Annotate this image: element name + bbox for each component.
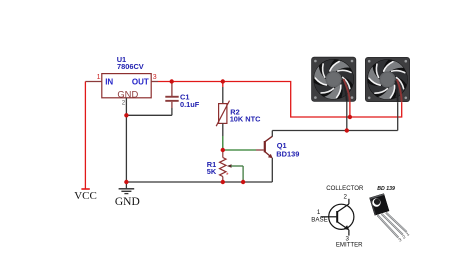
wire: green base wire — [223, 149, 256, 151]
svg-text:1: 1 — [317, 209, 321, 216]
svg-text:EMITTER: EMITTER — [336, 242, 363, 249]
wire: fan2 lead pair — [396, 81, 398, 103]
wire: emitter to ground rail — [271, 158, 273, 182]
svg-text:COLLECTOR: COLLECTOR — [326, 185, 364, 192]
wire: VCC pin stub from U1 pin1 — [85, 81, 101, 83]
wire: collector to fan negative rail — [271, 131, 273, 137]
svg-text:10K NTC: 10K NTC — [230, 115, 261, 124]
fan 1 — [311, 56, 358, 103]
svg-text:7806CV: 7806CV — [117, 62, 144, 71]
svg-text:5K: 5K — [207, 167, 217, 176]
svg-text:*: * — [226, 172, 229, 179]
wire: OUT pin stub — [151, 81, 158, 83]
package body with mounting hole — [370, 194, 389, 216]
emitter lead with arrow — [337, 222, 348, 229]
svg-text:GND: GND — [115, 196, 140, 208]
capacitor C1 — [171, 82, 173, 97]
wire: R1 wiper to bottom rail — [231, 165, 243, 167]
R1 wiper arrow — [227, 164, 232, 168]
svg-text:IN: IN — [105, 78, 113, 87]
wire: U1 GND vertical — [125, 98, 127, 182]
node: red fan junction — [348, 115, 352, 119]
wire: red top rail — [158, 82, 402, 118]
svg-text:GND: GND — [117, 89, 138, 100]
node: rail/R2 — [221, 79, 225, 83]
svg-text:0.1uF: 0.1uF — [180, 100, 200, 109]
transistor circle — [329, 204, 354, 229]
base bar — [336, 211, 338, 223]
wire: red vertical to VCC terminal — [84, 82, 86, 190]
svg-text:2: 2 — [122, 100, 126, 107]
BD139 pinout: transistor symbol — [311, 185, 364, 248]
svg-text:3: 3 — [153, 74, 157, 81]
ground symbol — [125, 182, 127, 189]
node: gnd rail left — [124, 180, 128, 184]
BD139 package drawing — [370, 186, 411, 243]
resistor R1 potentiometer — [222, 150, 224, 158]
svg-text:1: 1 — [97, 74, 101, 81]
transistor Q1 BD139 — [264, 141, 266, 152]
node: rail/C1 — [170, 79, 174, 83]
svg-text:BASE: BASE — [311, 217, 328, 224]
resistor R2 (NTC thermistor) — [222, 82, 224, 88]
power terminal VCC — [81, 188, 89, 190]
wire: fan2 black drop — [397, 102, 399, 130]
collector lead — [337, 204, 349, 212]
node: gnd/C1 tap — [124, 113, 128, 117]
wire: C1 bottom horizontal — [126, 114, 171, 116]
node: black fan junction — [345, 128, 349, 132]
op-amp U1 7806CV regulator box — [102, 74, 151, 98]
fan 2 — [364, 56, 411, 103]
svg-text:1: 1 — [405, 231, 410, 237]
package legs — [378, 213, 407, 238]
svg-text:2: 2 — [343, 193, 347, 200]
svg-text:OUT: OUT — [132, 78, 149, 87]
base lead — [321, 216, 337, 218]
wire: fan1 black drop — [346, 102, 348, 131]
node: R1 bottom — [221, 180, 225, 184]
node: R2/R1/base — [221, 148, 225, 152]
wire: bottom ground rail — [126, 181, 272, 183]
svg-text:BD 139: BD 139 — [377, 186, 395, 192]
svg-text:VCC: VCC — [74, 190, 97, 202]
node: wiper bottom — [241, 180, 245, 184]
svg-text:BD139: BD139 — [276, 149, 299, 158]
wire: fan1 lead pair — [342, 80, 347, 102]
wire: Q1 base pin stub — [256, 149, 264, 151]
wire: red drop to fan1 — [349, 102, 351, 118]
